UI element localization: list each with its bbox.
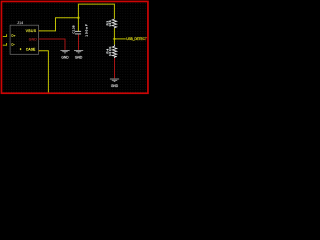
svg-text:100K: 100K [108,46,112,56]
wire GND pin to ground [39,39,65,50]
pin name SHIELD [20,48,21,50]
svg-text:D+: D+ [11,34,15,38]
resistor R4 body [112,45,116,59]
wire R4 to ground (GND net) [114,58,116,78]
svg-text:GND: GND [75,56,83,60]
svg-text:D-: D- [11,42,15,46]
background [0,0,150,95]
net flag D+ (left border) [3,43,7,45]
svg-text:C138: C138 [71,25,75,33]
junction divider [113,38,115,40]
connector J14 body [10,25,38,54]
wire to label USB_DETECT [114,38,125,40]
ground symbol GND2 [74,51,83,53]
net flag D- (left border) [3,34,7,36]
wire VBUS net [39,4,115,31]
junction VBUS/cap [77,17,79,19]
resistor R3 body [112,19,116,29]
ground symbol GND3 [110,79,119,82]
svg-text:VBUS: VBUS [26,29,37,33]
sheet border frame [1,1,148,93]
capacitor C138 plates [75,31,81,34]
wire junction to capacitor [77,18,79,31]
svg-text:CASE: CASE [26,47,36,51]
wire capacitor to ground (GND net) [78,35,80,50]
pin 5 stub GND [39,38,41,40]
svg-text:GND: GND [61,56,69,60]
wire SHIELD to bottom border [39,51,49,93]
svg-text:USB_DETECT: USB_DETECT [126,37,146,41]
svg-text:GND: GND [111,84,119,88]
label arrow outline [145,38,147,41]
pin 6 stub SHIELD [39,50,41,52]
svg-text:GND: GND [29,37,38,41]
svg-text:10K: 10K [108,20,112,27]
svg-text:J14: J14 [17,21,23,25]
wire R3 to junction [113,28,115,44]
svg-text:100nF: 100nF [85,23,89,36]
ground symbol GND1 [60,51,69,53]
pin 1 stub VBUS [39,30,41,32]
